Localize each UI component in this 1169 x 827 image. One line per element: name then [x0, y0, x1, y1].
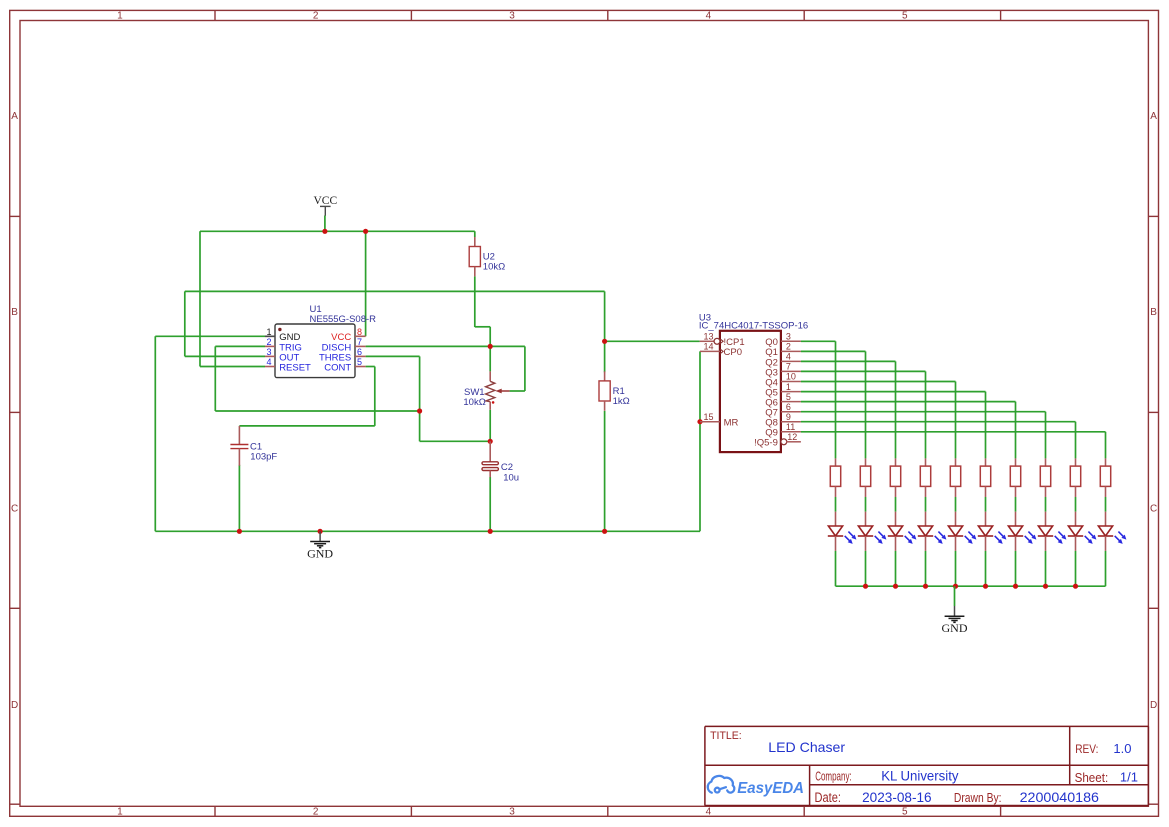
- svg-text:C: C: [11, 503, 18, 514]
- svg-text:2: 2: [786, 342, 791, 352]
- svg-text:Sheet:: Sheet:: [1075, 771, 1109, 785]
- svg-text:1/1: 1/1: [1120, 770, 1138, 785]
- svg-text:9: 9: [786, 412, 791, 422]
- svg-text:4: 4: [706, 11, 712, 22]
- svg-text:5: 5: [786, 392, 791, 402]
- svg-text:10kΩ: 10kΩ: [483, 262, 505, 273]
- svg-text:REV:: REV:: [1075, 742, 1098, 756]
- svg-text:3: 3: [266, 347, 271, 357]
- svg-text:GND: GND: [942, 621, 968, 635]
- svg-text:EasyEDA: EasyEDA: [737, 780, 804, 797]
- svg-text:A: A: [1150, 111, 1157, 122]
- svg-text:VCC: VCC: [313, 195, 337, 207]
- svg-text:5: 5: [902, 807, 908, 818]
- svg-text:8: 8: [357, 327, 362, 337]
- svg-text:D: D: [1150, 700, 1157, 711]
- svg-text:1: 1: [117, 11, 123, 22]
- svg-text:2: 2: [266, 337, 271, 347]
- svg-text:14: 14: [703, 342, 713, 352]
- svg-text:Drawn By:: Drawn By:: [954, 790, 1002, 805]
- svg-text:LED Chaser: LED Chaser: [768, 739, 845, 755]
- svg-text:6: 6: [357, 347, 362, 357]
- svg-text:13: 13: [703, 332, 713, 342]
- svg-text:1kΩ: 1kΩ: [613, 396, 630, 407]
- svg-text:NE555G-S08-R: NE555G-S08-R: [310, 314, 377, 325]
- svg-text:3: 3: [509, 807, 515, 818]
- svg-text:A: A: [11, 111, 18, 122]
- svg-text:1.0: 1.0: [1113, 741, 1131, 756]
- svg-text:2023-08-16: 2023-08-16: [862, 790, 932, 805]
- svg-text:7: 7: [786, 362, 791, 372]
- svg-text:IC_74HC4017-TSSOP-16: IC_74HC4017-TSSOP-16: [699, 320, 808, 331]
- svg-text:GND: GND: [307, 547, 333, 561]
- svg-text:12: 12: [787, 432, 797, 442]
- svg-text:Company:: Company:: [815, 768, 852, 783]
- svg-text:4: 4: [706, 807, 712, 818]
- svg-text:3: 3: [509, 11, 515, 22]
- svg-text:KL University: KL University: [881, 768, 959, 783]
- svg-text:103pF: 103pF: [250, 451, 277, 462]
- svg-text:1: 1: [117, 807, 123, 818]
- svg-text:11: 11: [786, 422, 795, 432]
- svg-text:CP0: CP0: [724, 347, 742, 358]
- svg-text:C: C: [1150, 503, 1157, 514]
- svg-text:!Q5-9: !Q5-9: [754, 438, 778, 449]
- svg-text:5: 5: [902, 11, 908, 22]
- svg-text:6: 6: [786, 402, 791, 412]
- svg-text:2: 2: [313, 807, 319, 818]
- svg-text:TITLE:: TITLE:: [710, 730, 742, 742]
- svg-text:10kΩ: 10kΩ: [463, 397, 485, 408]
- svg-text:MR: MR: [724, 418, 739, 429]
- svg-text:5: 5: [357, 357, 362, 367]
- svg-text:B: B: [11, 307, 18, 318]
- svg-text:1: 1: [266, 327, 271, 337]
- svg-text:CONT: CONT: [324, 362, 351, 373]
- svg-text:4: 4: [266, 357, 271, 367]
- svg-text:Date:: Date:: [815, 790, 842, 805]
- svg-text:1: 1: [786, 382, 791, 392]
- svg-text:D: D: [11, 700, 18, 711]
- svg-text:2200040186: 2200040186: [1020, 790, 1099, 805]
- svg-text:10u: 10u: [503, 472, 519, 483]
- svg-text:15: 15: [703, 412, 713, 422]
- svg-text:10: 10: [786, 372, 796, 382]
- svg-text:RESET: RESET: [279, 362, 311, 373]
- svg-text:2: 2: [313, 11, 319, 22]
- svg-text:3: 3: [786, 332, 791, 342]
- svg-text:7: 7: [357, 337, 362, 347]
- svg-text:4: 4: [786, 352, 791, 362]
- svg-text:B: B: [1150, 307, 1157, 318]
